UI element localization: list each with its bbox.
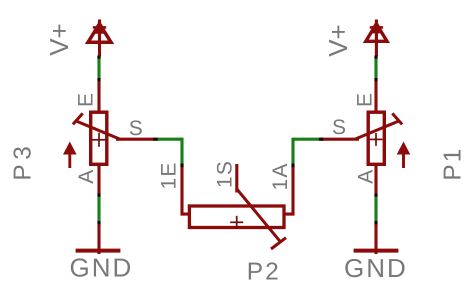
svg-text:V+: V+ [44, 23, 74, 56]
svg-text:1E: 1E [157, 161, 180, 189]
svg-text:S: S [129, 117, 144, 140]
svg-text:A: A [354, 169, 377, 184]
svg-text:S: S [332, 116, 347, 139]
svg-text:1S: 1S [214, 160, 237, 188]
svg-text:1A: 1A [269, 162, 292, 190]
svg-text:V+: V+ [323, 24, 353, 57]
svg-text:GND: GND [344, 253, 408, 283]
svg-text:P1: P1 [439, 147, 466, 181]
svg-text:P3: P3 [9, 142, 36, 181]
svg-text:E: E [74, 92, 97, 107]
svg-text:E: E [353, 92, 376, 107]
svg-text:GND: GND [70, 253, 134, 283]
svg-text:P2: P2 [247, 258, 281, 285]
svg-text:A: A [75, 169, 98, 184]
